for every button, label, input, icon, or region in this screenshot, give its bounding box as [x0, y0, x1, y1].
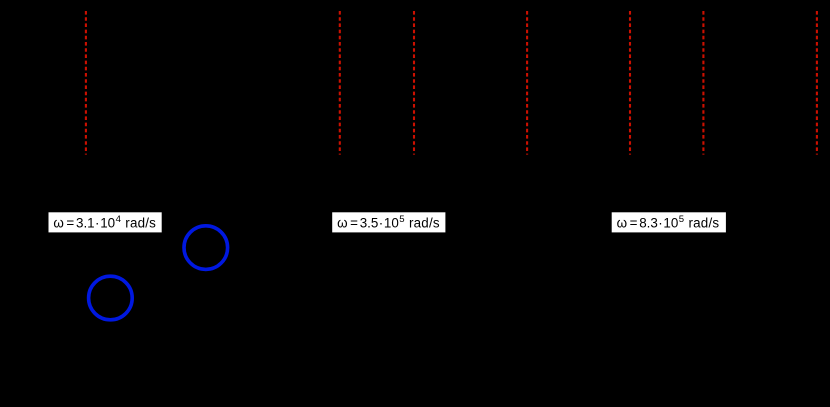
svg-text:rad/s: rad/s	[409, 216, 440, 231]
svg-text:=: =	[630, 216, 638, 231]
svg-text:rad/s: rad/s	[125, 216, 156, 231]
svg-text:3.1: 3.1	[76, 216, 95, 231]
wire: red dashed marker line 5	[629, 11, 631, 155]
svg-text:·: ·	[379, 216, 383, 231]
svg-text:4: 4	[116, 214, 122, 225]
label box omega1	[49, 212, 162, 232]
svg-text:5: 5	[399, 214, 404, 225]
wire: red dashed marker line 7	[816, 11, 818, 155]
svg-text:ω: ω	[53, 216, 63, 231]
svg-text:·: ·	[658, 216, 662, 231]
svg-text:3.5: 3.5	[360, 216, 379, 231]
svg-text:8.3: 8.3	[639, 216, 658, 231]
wire: red dashed marker line 2	[339, 11, 341, 155]
wire: red dashed marker line 6	[702, 11, 704, 155]
svg-text:10: 10	[663, 216, 678, 231]
svg-text:·: ·	[95, 216, 99, 231]
svg-text:=: =	[66, 216, 74, 231]
svg-text:rad/s: rad/s	[689, 216, 720, 231]
node marker: blue circle upper	[184, 226, 228, 270]
wire: red dashed marker line 3	[413, 11, 415, 155]
svg-text:ω: ω	[337, 216, 347, 231]
svg-text:5: 5	[679, 214, 684, 225]
node marker: blue circle lower	[89, 276, 133, 320]
wire: red dashed marker line 1	[85, 11, 87, 155]
label box omega2	[332, 212, 445, 232]
svg-text:10: 10	[384, 216, 399, 231]
label box omega3	[612, 212, 726, 232]
svg-text:=: =	[350, 216, 358, 231]
svg-text:ω: ω	[617, 216, 627, 231]
wire: red dashed marker line 4	[526, 11, 528, 155]
svg-text:10: 10	[100, 216, 115, 231]
